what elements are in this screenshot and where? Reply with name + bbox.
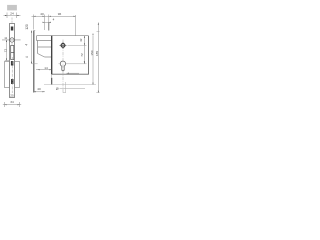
centerline of strike plate <box>11 18 13 25</box>
round hole d11 <box>10 38 14 42</box>
screw hole top (dark) <box>11 61 14 66</box>
svg-text:120: 120 <box>25 24 29 30</box>
dust box left wing <box>5 62 10 88</box>
latch front <box>36 36 38 41</box>
svg-text:185: 185 <box>95 51 99 56</box>
dust box right wing <box>15 62 20 88</box>
strip centerline dashes <box>11 57 13 93</box>
centerline dash between circle and bolt box <box>11 43 13 46</box>
svg-text:4: 4 <box>53 18 55 22</box>
dimension 24 (strike plate width) <box>4 13 21 19</box>
case outline <box>37 36 89 57</box>
svg-text:34: 34 <box>10 100 14 104</box>
bolt front <box>37 41 39 54</box>
svg-text:40: 40 <box>40 12 44 16</box>
cyl centerline extension left <box>32 63 38 65</box>
screw hole bottom (dark) <box>11 79 14 84</box>
faceplate edge (side view) <box>33 31 35 93</box>
bevel bottom <box>45 56 52 58</box>
cyl centerline extension right <box>68 63 87 65</box>
svg-text:150: 150 <box>90 50 94 55</box>
cylinder slot extension <box>65 82 67 93</box>
bottom dim arrow near keyhole <box>67 73 70 74</box>
right dim 42 (case top to hub axis) <box>83 36 85 46</box>
svg-text:4: 4 <box>25 56 29 58</box>
svg-text:40: 40 <box>37 87 41 91</box>
deadbolt openings <box>11 46 14 60</box>
extension lines for top dims <box>34 15 76 36</box>
left dim 72 <box>5 40 10 61</box>
left dim 120 (faceplate top to cylinder axis) <box>31 31 33 64</box>
bolt top line <box>38 46 52 48</box>
svg-text:11: 11 <box>4 36 7 40</box>
right outer dim 185 (faceplate height) <box>97 23 99 93</box>
hole centerline <box>2 39 21 41</box>
svg-text:96: 96 <box>58 12 62 16</box>
svg-text:Ø: Ø <box>56 87 59 91</box>
strike box top view (gray block) <box>7 5 17 10</box>
svg-text:4: 4 <box>24 44 28 46</box>
housing back wall (thick) <box>51 36 53 75</box>
right outer dim 150 (case height) <box>92 36 94 85</box>
case bottom extension line <box>44 84 96 86</box>
right dim 72 (hub axis to cylinder axis) <box>83 45 85 63</box>
dim 4 (small) <box>43 21 51 23</box>
faceplate top tick <box>33 30 35 32</box>
case bottom <box>52 73 89 75</box>
extension ticks for 185 <box>97 30 100 32</box>
svg-text:42: 42 <box>79 38 83 42</box>
strike plate front view (strip) <box>10 24 15 98</box>
case back <box>88 36 90 75</box>
latch bottom <box>37 40 52 42</box>
case top <box>37 35 89 37</box>
keyhole centerline stubs <box>59 63 61 65</box>
svg-text:14: 14 <box>44 66 48 70</box>
dim 14 (cylinder offset) <box>36 69 52 71</box>
bolt bevel <box>38 54 45 58</box>
top dim line 40 / 96 <box>32 15 76 17</box>
svg-text:25: 25 <box>10 94 14 98</box>
handle hub <box>60 42 67 49</box>
hub centerline extension right <box>68 44 87 46</box>
latch opening (dark) <box>11 27 14 31</box>
vertical centerline (hub/cylinder axis) <box>62 40 64 94</box>
housing wall extension with arrow <box>51 74 53 78</box>
svg-text:72: 72 <box>80 53 84 57</box>
svg-text:24: 24 <box>10 12 14 16</box>
cylinder keyhole <box>60 61 65 71</box>
svg-text:72: 72 <box>3 49 7 53</box>
